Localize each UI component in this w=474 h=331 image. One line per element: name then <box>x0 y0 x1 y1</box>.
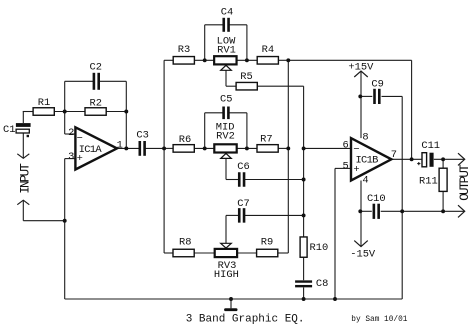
svg-text:HIGH: HIGH <box>214 269 239 281</box>
svg-text:C5: C5 <box>220 94 232 106</box>
svg-text:-15V: -15V <box>350 249 376 261</box>
svg-text:RV2: RV2 <box>216 130 235 142</box>
svg-text:C2: C2 <box>89 62 101 74</box>
svg-text:R5: R5 <box>240 71 252 83</box>
svg-text:IC1B: IC1B <box>356 154 379 166</box>
svg-text:R10: R10 <box>310 242 329 254</box>
svg-text:INPUT: INPUT <box>19 163 33 194</box>
svg-text:R8: R8 <box>179 236 191 248</box>
svg-text:R1: R1 <box>38 97 50 109</box>
svg-text:+15V: +15V <box>348 62 374 74</box>
svg-text:1: 1 <box>117 139 123 151</box>
svg-text:3: 3 <box>68 151 74 163</box>
svg-text:R6: R6 <box>179 134 191 146</box>
svg-text:IC1A: IC1A <box>79 144 103 156</box>
svg-text:C6: C6 <box>237 161 249 173</box>
svg-text:3 Band Graphic EQ.: 3 Band Graphic EQ. <box>186 313 305 325</box>
svg-text:5: 5 <box>342 161 348 173</box>
svg-text:2: 2 <box>68 127 74 139</box>
svg-text:C8: C8 <box>316 278 328 290</box>
svg-text:R3: R3 <box>178 44 190 56</box>
svg-text:C11: C11 <box>421 140 440 152</box>
svg-text:C3: C3 <box>136 130 148 142</box>
svg-text:R11: R11 <box>419 175 438 187</box>
svg-text:R7: R7 <box>260 133 272 145</box>
svg-text:OUTPUT: OUTPUT <box>458 164 472 201</box>
svg-text:C4: C4 <box>221 6 233 18</box>
svg-text:R4: R4 <box>262 44 274 56</box>
svg-text:7: 7 <box>391 149 397 161</box>
svg-text:RV1: RV1 <box>217 44 236 56</box>
svg-text:C1: C1 <box>3 124 15 136</box>
svg-text:R2: R2 <box>89 97 101 109</box>
svg-text:C10: C10 <box>367 193 386 205</box>
svg-text:4: 4 <box>362 174 368 186</box>
svg-text:C7: C7 <box>237 198 249 210</box>
svg-text:by Sam 10/01: by Sam 10/01 <box>351 316 407 324</box>
svg-text:R9: R9 <box>261 237 273 249</box>
svg-text:8: 8 <box>362 132 368 144</box>
svg-text:C9: C9 <box>371 79 383 91</box>
svg-text:6: 6 <box>342 140 348 152</box>
